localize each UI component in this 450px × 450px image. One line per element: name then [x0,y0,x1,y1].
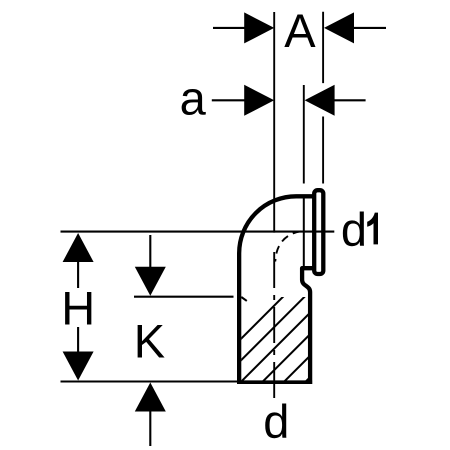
node extA-right [322,12,324,83]
wire dimH-arrow-up [63,233,94,262]
svg-text:K: K [134,314,165,367]
wire dima-arrow-right [305,85,335,116]
wire dima-right-tail [333,99,366,101]
wire dima-left-tail [212,99,246,101]
wire elbow-bottom-edge [237,380,312,384]
wire dimK-tail-lower [149,410,151,447]
capacitor gasket-flange [314,190,323,274]
node centerline-dashdot [273,252,275,399]
wire line-bottom [61,380,241,382]
svg-text:d: d [263,395,289,448]
node centerline-extension [273,12,275,233]
svg-text:a: a [180,71,207,124]
node extA-right-lower [322,117,324,184]
wire hatch-section [194,292,395,386]
wire dimA-left-tail [213,27,246,29]
wire socket-chamfer [241,297,247,301]
wire dimK-arrow-up [135,383,166,412]
wire bore-hidden-arc [275,231,300,261]
node label-d1-digit [367,213,378,245]
wire pipe-end-face [303,198,305,266]
wire dimA-right-tail [352,27,386,29]
svg-text:A: A [284,4,316,57]
wire dimH-tail-lower [77,327,79,354]
wire elbow-outline-left-top [239,196,314,382]
wire dimK-arrow-down [135,267,166,296]
wire dimA-arrow-right [324,12,354,43]
wire line-K-top [134,296,234,298]
wire dimH-tail-upper [77,260,79,288]
svg-text:H: H [61,282,95,335]
wire dimK-tail-upper [149,235,151,268]
wire line-d1-axis [61,231,335,233]
svg-text:d: d [341,203,367,256]
wire dima-arrow-left [244,85,274,116]
wire dimA-arrow-left [244,12,274,43]
wire dimH-arrow-down [63,352,94,381]
wire elbow-right-edge [302,268,315,384]
node exta-right [303,85,305,184]
